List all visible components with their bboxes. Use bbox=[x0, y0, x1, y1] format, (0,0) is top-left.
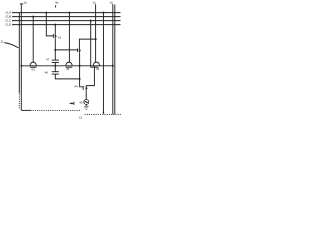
svg-text:1a: 1a bbox=[23, 0, 27, 4]
svg-text:V1: V1 bbox=[93, 1, 97, 6]
svg-text:43: 43 bbox=[31, 68, 35, 72]
svg-text:45: 45 bbox=[79, 101, 83, 105]
svg-text:49: 49 bbox=[96, 67, 100, 71]
svg-text:48: 48 bbox=[66, 67, 70, 71]
svg-text:41: 41 bbox=[58, 36, 62, 40]
svg-text:47: 47 bbox=[46, 57, 50, 61]
svg-text:44: 44 bbox=[74, 84, 78, 88]
svg-text:11: 11 bbox=[0, 39, 3, 43]
svg-text:CLD: CLD bbox=[5, 23, 12, 27]
svg-text:46: 46 bbox=[45, 70, 49, 74]
svg-text:CL: CL bbox=[79, 115, 83, 119]
svg-text:4a: 4a bbox=[55, 1, 59, 5]
